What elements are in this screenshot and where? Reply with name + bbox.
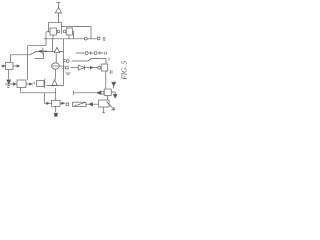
wire Z1 down	[102, 107, 105, 113]
arrow down top-right	[112, 82, 116, 88]
wire Q5 down	[8, 70, 10, 81]
wire resistor to box arrow	[86, 103, 98, 106]
transistor Q3 bar	[42, 48, 44, 55]
node terminal circle B	[97, 37, 100, 40]
wire junction drop	[44, 93, 46, 104]
wire Q2 drain right	[72, 32, 73, 39]
label B	[54, 113, 57, 117]
transistor Q7 left lead	[45, 102, 52, 104]
wire mid-bottom horizontal	[47, 85, 64, 87]
transistor Q4 circle	[52, 63, 60, 69]
wire mid horizontal	[30, 52, 63, 55]
node input circle row2	[65, 66, 68, 69]
component K1 body	[37, 81, 45, 87]
wire left column vertical	[27, 46, 29, 80]
node input circle row1	[66, 60, 69, 63]
wire Q5 top	[9, 55, 11, 63]
node circle bottom row	[66, 103, 69, 106]
resistor R1 body	[73, 102, 87, 106]
wire long horizontal bus	[44, 38, 97, 40]
transistor Q8 bubble	[98, 66, 101, 69]
wire Q2 bottom	[68, 35, 70, 39]
wire Q9 right arrow down	[111, 92, 117, 98]
wire Q5 right lead	[13, 65, 20, 67]
wire supply top	[58, 3, 60, 9]
wire Q4 down	[54, 69, 56, 80]
arrow down left	[7, 80, 11, 84]
supply triangle	[55, 8, 61, 14]
label row2 dashes	[62, 66, 65, 68]
wire supply to rail	[58, 13, 60, 23]
diode D1 triangle	[54, 47, 59, 52]
transistor Q9 bubble	[101, 91, 104, 94]
label row3 dashes	[66, 73, 71, 75]
diode D3	[78, 65, 84, 70]
wire center vertical upper	[52, 39, 54, 52]
wire Q1 gate feed	[46, 31, 50, 33]
wire center vertical to Q4	[35, 53, 57, 63]
resistor R1 slash	[74, 102, 86, 106]
svg-text:FIG. 5: FIG. 5	[120, 60, 127, 80]
transistor Q9 body	[104, 89, 111, 96]
transistor Q1 body	[50, 28, 57, 35]
component Z1 diagonal arrow	[107, 102, 115, 111]
wire top rail	[49, 22, 62, 24]
svg-text:8: 8	[103, 37, 106, 43]
transistor Q6 body	[17, 80, 26, 88]
transistor Q3 lead	[43, 50, 47, 52]
transistor Q1 gate bubble	[57, 30, 60, 33]
transistor Q2 gate bubble	[63, 30, 66, 33]
transistor Q6 gate arrow	[5, 83, 17, 85]
node gate tie	[61, 27, 63, 35]
wire row2 left	[71, 67, 79, 69]
wire Q1 bottom	[52, 35, 54, 39]
component K1 bar	[44, 79, 46, 88]
wire bottom rail right	[74, 91, 102, 95]
supply terminal tick	[57, 2, 61, 4]
label row1	[108, 58, 110, 61]
label row1 dashes	[63, 60, 66, 62]
transistor Q8 body	[101, 64, 108, 71]
wire rail right corner	[61, 23, 63, 27]
wire right column vertical	[62, 39, 64, 86]
component Z1 body	[99, 100, 110, 107]
transistor Q4 inner bar	[52, 65, 58, 67]
diode D2 triangle	[52, 80, 57, 86]
transistor Q5 left terminal arrow	[1, 65, 5, 67]
node tick C	[90, 51, 92, 55]
wire Q4 lead right	[59, 65, 62, 67]
node circle C	[85, 52, 88, 55]
wire row1	[72, 58, 107, 64]
transistor Q5 body	[6, 63, 14, 70]
wire upper horizontal to right	[62, 26, 92, 28]
transistor Q3 arrow	[39, 50, 42, 52]
wire rail left drop	[48, 23, 50, 32]
wire center lower vertical	[55, 88, 57, 100]
wire left branch horizontal	[28, 45, 46, 47]
node tick D	[100, 51, 107, 55]
node circle D	[94, 52, 97, 55]
wire bottom rail left drop	[20, 88, 22, 93]
transistor Q7 body	[52, 100, 61, 106]
wire Q7 down	[55, 106, 57, 112]
label tick left	[7, 82, 13, 87]
wire Q8 down	[105, 71, 107, 88]
label a	[33, 82, 35, 85]
wire Q6 right lead	[26, 83, 33, 85]
label right of Q8	[110, 70, 112, 74]
wire right drop	[90, 27, 92, 39]
wire bottom rail left	[21, 92, 57, 94]
wire center right circles row	[76, 52, 104, 54]
wire Q9 down	[107, 96, 109, 101]
transistor Q9 gate arrow	[97, 91, 101, 94]
transistor Q2 body	[66, 28, 72, 35]
transistor Q7 right lead	[60, 102, 65, 104]
node terminal circle A	[84, 37, 87, 40]
wire left branch vertical	[45, 32, 47, 46]
wire row2 right	[85, 67, 98, 69]
wire left mid horizontal	[10, 54, 30, 56]
